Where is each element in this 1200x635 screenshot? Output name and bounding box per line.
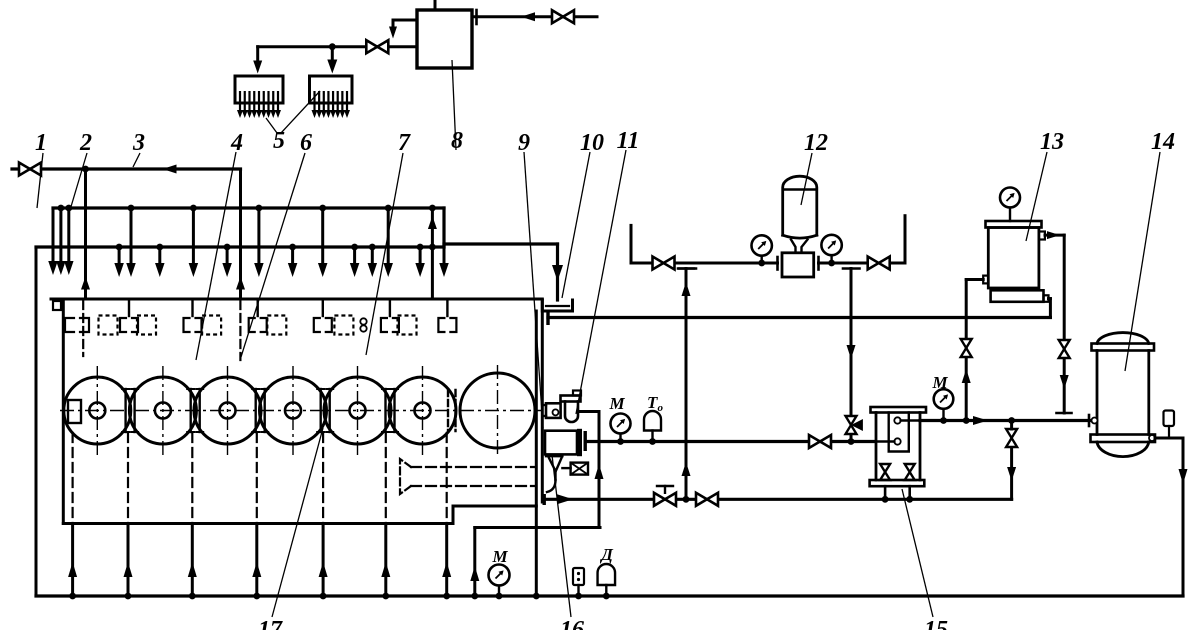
suction bell mouth dashed xyxy=(400,459,411,494)
riser x=240.5 engine to top pipe xyxy=(239,169,242,299)
engine left wall xyxy=(62,299,65,524)
filter outlet drop x=1064 xyxy=(1063,235,1066,413)
arrow right on cooler outlet xyxy=(973,416,988,425)
lower pipe corner up to cooler outlet xyxy=(1010,446,1013,499)
drop pipes from rail1 left triple xyxy=(52,208,55,263)
tank 14 bottom flange xyxy=(1091,435,1156,443)
svg-text:12: 12 xyxy=(804,130,828,156)
valve V-1 top-left xyxy=(19,163,30,176)
arrow right on lower pipe xyxy=(557,494,573,504)
valve V-16 on lower pipe xyxy=(696,493,707,506)
engine right outer wall xyxy=(541,300,544,502)
svg-text:M: M xyxy=(931,373,948,392)
svg-text:7: 7 xyxy=(398,130,411,156)
engine right inner wall xyxy=(535,311,538,596)
svg-text:10: 10 xyxy=(580,130,604,156)
drop pipes from rail2 xyxy=(118,247,121,265)
svg-text:8: 8 xyxy=(451,128,463,154)
cooler bottom plate xyxy=(870,480,925,486)
svg-text:M: M xyxy=(608,394,625,413)
riser x=432.4 to rail1 xyxy=(431,208,434,299)
svg-text:6: 6 xyxy=(300,130,312,156)
crank centerline horizontal xyxy=(60,410,543,412)
cylinder 3 xyxy=(194,377,261,444)
pipe: tank 8 overflow, left-down stub xyxy=(393,20,417,30)
drop from rail extension into collector tray xyxy=(556,244,559,300)
rail1 node dots xyxy=(58,205,65,212)
filter 13 gauge xyxy=(1000,188,1020,208)
head fitting square 5 xyxy=(334,316,353,335)
collector tray 10 xyxy=(542,300,572,311)
tank 14 bottom dish xyxy=(1097,442,1149,457)
outer left boundary pipe xyxy=(35,247,38,596)
rail extension to x=557.5 xyxy=(444,242,558,245)
crankcase dashed drop lines xyxy=(71,433,73,524)
engine top edge xyxy=(51,298,542,301)
rail connector x=444 xyxy=(442,208,445,247)
tank 14 inlet nipple xyxy=(1092,418,1098,424)
accumulator 12 vessel xyxy=(783,176,817,235)
head fitting bracket D xyxy=(249,318,255,332)
pipe: tank outlet to downcomer xyxy=(1155,437,1183,440)
pipe: drop to comb 1 xyxy=(256,47,259,64)
cylinder 4 xyxy=(260,377,327,444)
pump 11 top flange xyxy=(561,396,581,402)
filter 13 top plate xyxy=(986,221,1042,228)
riser x=85.5 engine to top pipe xyxy=(84,169,87,299)
filter outlet arrow xyxy=(1045,234,1064,237)
cylinder 1 xyxy=(64,377,131,444)
manometer M (discharge) xyxy=(611,414,631,434)
drain elbow xyxy=(547,480,556,492)
filter inlet riser x=966 xyxy=(966,278,983,281)
svg-text:17: 17 xyxy=(258,617,283,630)
head fitting square 1 xyxy=(99,316,118,335)
nozzle comb 4 (left) xyxy=(235,76,283,103)
svg-text:13: 13 xyxy=(1040,129,1064,155)
pipe: drop to comb 2 xyxy=(331,47,334,64)
head fitting bracket A xyxy=(65,318,74,332)
svg-text:15: 15 xyxy=(924,617,948,630)
head fitting bracket B xyxy=(120,318,126,332)
tank 8 xyxy=(417,10,472,68)
cooler 15 body xyxy=(875,413,878,481)
head fitting bracket E xyxy=(314,318,320,332)
flange ticks at distributor box xyxy=(776,257,779,270)
rail 1 (upper manifold) y=208 xyxy=(53,206,444,209)
head fitting square 4 xyxy=(267,316,286,335)
pipe: accumulator line right segment xyxy=(819,262,906,265)
valve with handle on drop x=851 xyxy=(846,416,857,425)
node lower pipe x=686 xyxy=(683,496,690,503)
branch tee stub right (to filter drop) xyxy=(843,267,860,270)
svg-text:5: 5 xyxy=(273,128,285,154)
svg-text:14: 14 xyxy=(1151,129,1175,155)
valve V-7 on comb feed pipe xyxy=(366,40,377,53)
cooler 15 top plate xyxy=(871,407,927,413)
pipe: tank 8 vent stub xyxy=(434,0,437,10)
branch tee stub left (to standpipe) xyxy=(679,267,696,270)
right bearing bracket xyxy=(447,390,449,431)
pressure switch box xyxy=(573,568,584,585)
cylinder 5 xyxy=(324,377,391,444)
pipe: tank 8 to injector combs xyxy=(258,45,417,48)
valve V-15a before cooler xyxy=(809,435,820,448)
thermometer To (discharge) xyxy=(644,411,661,431)
node: comb branch junction xyxy=(329,43,336,50)
svg-text:Д: Д xyxy=(599,545,614,564)
discharge flange tick xyxy=(584,431,587,451)
svg-text:2: 2 xyxy=(79,130,92,156)
head fitting square 2 xyxy=(137,316,156,335)
tank 14 dome xyxy=(1097,333,1149,344)
pump outlet pipe to riser x=599 xyxy=(578,410,599,413)
riser from drain box xyxy=(473,528,476,597)
motor 9 body xyxy=(545,431,577,455)
arrow up on riser x=599 xyxy=(595,464,604,479)
cooler drain valves xyxy=(880,464,890,472)
cooler 15 U-tube xyxy=(889,413,909,452)
head fitting bracket G xyxy=(438,318,444,332)
cylinder 6 xyxy=(389,377,456,444)
motor 9 flange xyxy=(577,429,582,456)
drop pipes from rail1 xyxy=(130,208,133,265)
left main-bearing bracket xyxy=(68,400,81,423)
svg-text:16: 16 xyxy=(560,617,584,630)
level instrument on tank outlet xyxy=(1164,411,1175,427)
bottom return bus y=596 xyxy=(36,594,1183,597)
drop pipe x=851 xyxy=(850,269,853,442)
check valve branch at x=1011.6 xyxy=(1006,429,1017,438)
filter 13 lower box xyxy=(991,290,1044,302)
pipe: lower return y=499.3 xyxy=(543,494,546,505)
tank 14 body xyxy=(1096,351,1099,435)
flange tick at tank 14 inlet xyxy=(1088,415,1091,426)
manometer M (cooler) xyxy=(934,389,954,409)
dashed internal riser x=240 xyxy=(239,301,241,360)
nozzle comb 5 (right) xyxy=(310,76,353,103)
rail 2 (lower manifold) y=247 xyxy=(36,245,444,248)
filter left nipple xyxy=(983,276,988,284)
valve V-12L xyxy=(653,257,664,270)
globe valve with handle xyxy=(654,493,665,506)
small pump P on left wall xyxy=(53,301,61,310)
svg-text:11: 11 xyxy=(617,128,640,154)
pump 11 inlet box xyxy=(546,403,561,418)
rail2 node dots xyxy=(116,244,123,251)
head fitting square 6 xyxy=(398,316,417,335)
arrow on top pipe xyxy=(163,165,177,174)
filter 13 body xyxy=(988,228,1039,289)
valve V-8 on tank inlet xyxy=(552,10,563,23)
cooler inlet stub xyxy=(875,440,895,443)
drain funnel 16 xyxy=(546,455,562,457)
cylinder 2 xyxy=(129,377,196,444)
node on top pipe xyxy=(82,166,89,173)
riser into filter 13 bottom xyxy=(1049,299,1052,318)
drain box outline xyxy=(475,526,600,529)
head fitting square 3 xyxy=(202,316,221,335)
indicator circles xyxy=(360,318,366,324)
engine bottom edge xyxy=(63,522,453,525)
head fitting bracket F xyxy=(381,318,387,332)
node engine wall to bus xyxy=(533,593,540,600)
cooler outlet stub xyxy=(901,419,920,422)
filter outlet nipple xyxy=(1039,232,1045,240)
pipe: accumulator line y=263 xyxy=(631,262,778,265)
head stubs xyxy=(128,299,130,316)
pipe: inlet to tank 8 from right xyxy=(472,15,597,18)
gauge right of accumulator xyxy=(821,235,841,255)
gauge left of accumulator xyxy=(752,235,772,255)
head fitting bracket C xyxy=(184,318,190,332)
accumulator neck xyxy=(791,240,808,253)
svg-text:3: 3 xyxy=(132,130,145,156)
pipe: long supply line y=317.5 xyxy=(546,311,549,325)
dashed internal riser x=83 xyxy=(82,301,84,356)
arrow into tank 8 xyxy=(521,12,535,21)
filter right inlet nipple xyxy=(1044,295,1049,302)
pump 11 body xyxy=(565,401,578,422)
svg-text:1: 1 xyxy=(35,130,47,156)
pipe: engine discharge y=441.5 xyxy=(587,440,875,443)
tank 14 outlet nipple xyxy=(1149,435,1155,441)
distributor box 12 xyxy=(782,253,814,277)
sump risers with arrows xyxy=(71,524,74,597)
svg-text:M: M xyxy=(491,547,508,566)
cooler drain stems xyxy=(884,486,887,499)
main bearing brackets xyxy=(124,389,126,432)
arrow down on downcomer xyxy=(1179,469,1188,484)
pipe: top supply line y=169 xyxy=(12,167,241,170)
flexible joint (crossed box) xyxy=(571,463,588,475)
pipe: cooler outlet y=420.5 xyxy=(920,419,1092,422)
manometer M (sump) xyxy=(489,565,510,586)
valve V-12R xyxy=(868,257,879,270)
flywheel (large circle) xyxy=(460,373,535,448)
tank 14 top flange xyxy=(1092,344,1155,351)
sensor bell D xyxy=(598,564,616,585)
engine bottom step xyxy=(452,506,455,524)
standpipe x=686 xyxy=(685,269,688,500)
